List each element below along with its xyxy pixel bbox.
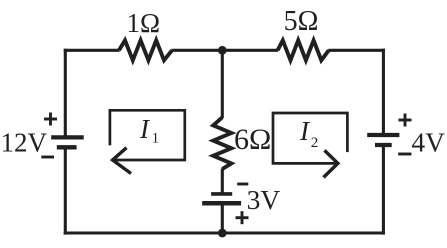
wire right side lower bbox=[382, 145, 385, 235]
battery V3 3V short plate (top) bbox=[211, 192, 232, 196]
battery V3 3V long plate (bottom) bbox=[202, 201, 241, 206]
wire middle branch lower bbox=[221, 203, 224, 233]
battery V1 12V long plate bbox=[51, 135, 83, 139]
resistor 6ohm zigzag (vertical) bbox=[213, 117, 231, 169]
resistor 1ohm zigzag bbox=[119, 40, 172, 60]
svg-text:4V: 4V bbox=[411, 126, 445, 157]
battery V2 4V long plate bbox=[367, 133, 399, 137]
plus sign of 12V bbox=[44, 113, 57, 126]
svg-text:5Ω: 5Ω bbox=[284, 6, 319, 37]
wire middle branch upper bbox=[221, 50, 224, 118]
wire top-right segment bbox=[328, 49, 385, 52]
svg-text:3V: 3V bbox=[247, 184, 281, 215]
plus sign of 3V bbox=[236, 211, 249, 224]
junction dot bottom bbox=[218, 229, 227, 238]
battery V1 12V short plate bbox=[57, 145, 77, 149]
plus sign of 4V bbox=[399, 114, 412, 127]
minus sign of 4V bbox=[398, 153, 411, 156]
svg-text:6Ω: 6Ω bbox=[234, 123, 271, 156]
minus sign of 3V bbox=[237, 183, 248, 186]
minus sign of 12V bbox=[41, 156, 54, 159]
mesh current I2 loop arrow bbox=[273, 113, 347, 177]
wire left side lower bbox=[64, 147, 67, 234]
junction dot top bbox=[218, 46, 227, 55]
resistor 5ohm zigzag bbox=[278, 40, 329, 60]
svg-text:1Ω: 1Ω bbox=[127, 8, 161, 38]
wire right side upper bbox=[382, 49, 385, 135]
wire top-middle segment bbox=[172, 49, 279, 52]
svg-text:1: 1 bbox=[152, 131, 159, 147]
wire top-left segment bbox=[64, 49, 120, 52]
svg-text:12V: 12V bbox=[1, 128, 48, 158]
svg-text:2: 2 bbox=[311, 135, 319, 151]
battery V2 4V short plate bbox=[375, 143, 392, 147]
wire middle branch between resistor and battery bbox=[221, 169, 224, 194]
wire left side upper bbox=[64, 49, 67, 138]
wire bottom bbox=[64, 231, 385, 234]
mesh current I1 loop arrow bbox=[110, 110, 185, 173]
